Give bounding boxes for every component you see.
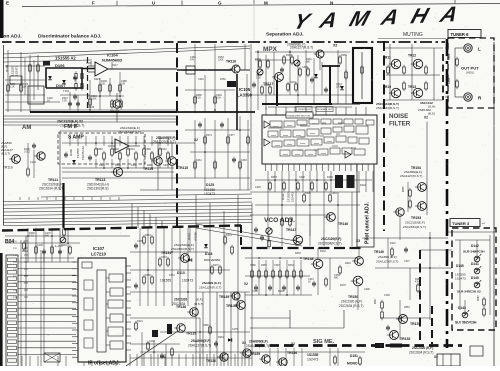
transistor TR119	[389, 88, 401, 97]
svg-text:R261: R261	[218, 336, 224, 339]
svg-text:D108: D108	[5, 64, 9, 72]
svg-text:R131: R131	[129, 148, 135, 151]
resistor R102	[20, 83, 23, 93]
IC MPX decoder outline	[262, 112, 377, 164]
transistor	[276, 358, 287, 366]
svg-text:D105: D105	[88, 105, 95, 109]
svg-text:TR152: TR152	[400, 337, 411, 341]
dashed border vertical muting left	[383, 41, 385, 231]
svg-text:TR110: TR110	[3, 166, 13, 170]
svg-text:D106: D106	[55, 63, 65, 68]
svg-text:47K: 47K	[190, 59, 195, 62]
svg-text:TR140: TR140	[226, 304, 237, 308]
resistor row lower	[251, 260, 303, 295]
transistor TR152 group	[387, 331, 411, 342]
wire thick y112 right	[177, 111, 255, 113]
svg-text:TR147: TR147	[286, 228, 296, 232]
label TUNER 3 box	[450, 219, 486, 227]
svg-text:25A1127(R,S,T): 25A1127(R,S,T)	[153, 140, 176, 144]
svg-text:680: 680	[306, 61, 311, 64]
svg-text:R399: R399	[115, 164, 121, 167]
transistor	[352, 257, 363, 266]
wires mid column x185-250	[185, 44, 250, 190]
dashed border vertical x177	[176, 43, 178, 226]
svg-text:(R,S,T): (R,S,T)	[194, 302, 203, 306]
svg-text:IL-ATM: IL-ATM	[55, 245, 62, 248]
svg-text:R133: R133	[286, 54, 292, 57]
svg-text:TR113: TR113	[95, 178, 105, 182]
label 2SA899 mid	[199, 281, 248, 290]
svg-text:R254: R254	[271, 176, 277, 179]
svg-text:Separation ADJ.: Separation ADJ.	[266, 32, 304, 38]
label L-CH MPX OUT	[295, 107, 312, 112]
svg-text:2SA1127(R,S,T): 2SA1127(R,S,T)	[246, 344, 269, 348]
transistor TR148 group	[303, 257, 323, 269]
svg-text:R381: R381	[255, 58, 261, 61]
wire diagonals to VCO	[196, 215, 330, 246]
svg-text:D116: D116	[205, 252, 213, 256]
svg-text:C254: C254	[331, 192, 337, 195]
transistor TR12	[411, 59, 423, 68]
svg-text:C136: C136	[86, 62, 92, 65]
transistor TR117 group	[263, 73, 283, 86]
svg-text:NJM4560D: NJM4560D	[102, 58, 122, 63]
svg-text:D111: D111	[281, 193, 285, 200]
svg-text:ion ADJ.: ion ADJ.	[2, 34, 22, 40]
transistor TR122 muting	[408, 85, 423, 98]
transistor TR115 group	[165, 157, 188, 170]
right page border	[493, 42, 495, 366]
wire thick y112	[30, 111, 177, 113]
trimmer separation	[257, 60, 300, 75]
transistor	[387, 331, 399, 340]
svg-text:10K: 10K	[121, 83, 126, 86]
transistor TR110	[3, 155, 20, 170]
svg-text:WZ090: WZ090	[194, 232, 198, 241]
svg-text:2SC2320(E,F): 2SC2320(E,F)	[405, 221, 425, 225]
IC MPX pins bottom	[266, 164, 374, 171]
resistor row FM IF	[95, 147, 170, 161]
svg-text:R246: R246	[345, 262, 351, 265]
wires IC to vco	[255, 192, 360, 246]
svg-text:R360: R360	[478, 295, 480, 301]
transistor TR114 group	[143, 157, 162, 171]
svg-text:R148: R148	[278, 290, 284, 293]
svg-text:SIG ME.: SIG ME.	[313, 339, 335, 345]
svg-text:LA3390: LA3390	[237, 93, 253, 98]
transistor TR134 group	[161, 243, 194, 262]
svg-text:1S2473: 1S2473	[182, 279, 193, 283]
svg-text:N: N	[330, 1, 333, 6]
svg-text:R174: R174	[206, 134, 212, 137]
svg-text:TR12: TR12	[408, 54, 416, 58]
svg-text:R142: R142	[360, 184, 366, 187]
dashed border horizontal y248	[241, 247, 362, 249]
resistor VCO pair	[254, 217, 291, 241]
dashed border discriminator section	[2, 41, 205, 43]
svg-text:C124: C124	[30, 161, 36, 164]
svg-text:R150: R150	[220, 78, 226, 81]
svg-text:3.3K: 3.3K	[216, 97, 221, 100]
svg-text:SLR-34MRC0H: SLR-34MRC0H	[463, 250, 485, 254]
svg-text:TR148: TR148	[303, 257, 314, 261]
svg-text:TR150: TR150	[348, 295, 358, 299]
svg-text:1S2473: 1S2473	[291, 192, 295, 202]
transistor TR153 group	[393, 208, 426, 229]
svg-text:D112: D112	[187, 233, 191, 240]
muting box top line	[378, 38, 446, 40]
svg-text:C390: C390	[145, 148, 151, 151]
transistor TR150 group	[339, 276, 363, 308]
svg-text:C291: C291	[198, 78, 204, 81]
resistor row MPX	[252, 51, 347, 96]
svg-text:R112: R112	[390, 242, 396, 245]
capacitor row lower	[250, 252, 314, 296]
transistor TR13	[411, 88, 423, 97]
svg-text:C393: C393	[241, 159, 247, 162]
small box right bottom	[470, 346, 483, 356]
svg-text:R363: R363	[145, 234, 151, 237]
svg-text:100K: 100K	[218, 59, 224, 62]
transistor TR111 group	[34, 152, 64, 191]
svg-text:MONO: MONO	[347, 362, 358, 366]
svg-text:3.3K: 3.3K	[256, 77, 261, 80]
resistor cluster discriminator	[68, 80, 127, 111]
svg-text:TR155: TR155	[250, 352, 260, 356]
svg-text:R121: R121	[137, 320, 143, 323]
svg-text:(R,S,T): (R,S,T)	[1, 152, 10, 156]
svg-text:10K: 10K	[23, 86, 28, 89]
wires around TR114 TR115	[140, 143, 250, 190]
svg-text:1S2473: 1S2473	[15, 66, 19, 76]
wires mid column	[130, 228, 250, 306]
diode labels D109	[69, 146, 85, 160]
resistor pair in D106 box	[48, 71, 83, 90]
label 2SA899 X2 separation	[287, 43, 337, 50]
svg-text:TR111: TR111	[48, 178, 58, 182]
svg-text:RD6.2ESB2: RD6.2ESB2	[204, 258, 221, 262]
svg-text:2SA899 (E,F): 2SA899 (E,F)	[202, 281, 221, 285]
svg-text:TR116: TR116	[226, 60, 236, 64]
wires lower network	[245, 248, 360, 310]
svg-text:2SD1302(R,S): 2SD1302(R,S)	[87, 187, 108, 191]
svg-text:X2: X2	[244, 282, 248, 286]
tuner3 dashed box	[452, 228, 496, 330]
svg-text:TR11: TR11	[383, 56, 391, 60]
svg-text:D142: D142	[471, 244, 479, 248]
svg-text:R316: R316	[226, 234, 232, 237]
resistor R103	[29, 63, 32, 73]
svg-text:IC107: IC107	[93, 246, 105, 251]
svg-text:2SC2320: 2SC2320	[174, 298, 188, 302]
transistor TR116 group	[177, 60, 250, 131]
led D140 group	[455, 273, 481, 288]
transistor TR111	[34, 152, 45, 160]
svg-text:R383: R383	[97, 148, 103, 151]
svg-text:0.022: 0.022	[24, 151, 31, 154]
transistor TR116	[230, 65, 241, 73]
label muting transistor values	[376, 101, 435, 120]
wires connector to IC107	[18, 262, 76, 354]
diode D108 label	[5, 64, 19, 76]
svg-text:IC105: IC105	[239, 87, 251, 92]
dark mark bottom mid	[152, 330, 158, 337]
svg-text:TR149: TR149	[374, 250, 384, 254]
svg-text:R355: R355	[341, 54, 347, 57]
left page edge bar top	[0, 0, 4, 38]
svg-text:2SC2634 (R,S,T): 2SC2634 (R,S,T)	[339, 304, 363, 308]
dashed border vertical x432 lower	[431, 306, 433, 344]
transistor	[415, 202, 426, 211]
svg-text:2SA1127(R,S,T): 2SA1127(R,S,T)	[199, 286, 221, 290]
svg-text:C377: C377	[229, 134, 235, 137]
transistor TR138 group	[176, 305, 198, 316]
svg-text:X2: X2	[333, 44, 337, 48]
svg-text:E: E	[6, 1, 9, 6]
svg-text:TR136: TR136	[206, 359, 216, 363]
svg-text:(B,S): (B,S)	[428, 112, 435, 116]
svg-text:C397: C397	[274, 264, 280, 267]
svg-text:TR134: TR134	[161, 251, 171, 255]
svg-text:TR151: TR151	[410, 322, 421, 326]
svg-text:S AMP: S AMP	[68, 135, 84, 141]
wire diagonal bottom-left	[126, 331, 178, 366]
wire bus vertical drops	[196, 195, 252, 366]
wires right mid	[362, 216, 452, 340]
transistor TR151 group	[396, 315, 421, 327]
wire stubs bottom edge	[22, 354, 252, 366]
dash-dot heavy vertical x447	[446, 39, 449, 348]
transistor	[396, 315, 408, 324]
transistor TR119 muting	[383, 85, 401, 98]
svg-text:2SC2634(R,S,T): 2SC2634(R,S,T)	[118, 130, 141, 134]
svg-text:D125: D125	[206, 183, 214, 187]
svg-text:F: F	[92, 1, 95, 6]
svg-text:R161: R161	[196, 159, 202, 162]
svg-text:MUTING: MUTING	[403, 32, 423, 38]
dashed border vertical x420	[419, 250, 421, 345]
wires muting frame	[384, 44, 443, 100]
label 2SC2320 mid	[172, 298, 203, 307]
svg-text:D109: D109	[69, 149, 73, 156]
svg-text:1K: 1K	[308, 281, 311, 284]
svg-text:U: U	[152, 1, 155, 6]
svg-text:G: G	[218, 1, 222, 6]
wires sigme	[250, 348, 365, 366]
svg-text:R235: R235	[403, 186, 405, 192]
edge connector left	[6, 255, 18, 366]
box small filter	[10, 76, 22, 84]
svg-text:C351: C351	[169, 274, 175, 277]
svg-text:D151: D151	[350, 354, 358, 358]
svg-text:TR153: TR153	[411, 216, 421, 220]
S AMP dashed box	[58, 133, 145, 164]
dark component near TR116	[227, 81, 236, 87]
svg-text:2SC2634 (R,S,T): 2SC2634 (R,S,T)	[39, 187, 64, 191]
label 2SA899 sigme	[246, 340, 295, 349]
svg-text:D145: D145	[456, 264, 464, 268]
svg-text:OUT PUT: OUT PUT	[461, 66, 479, 71]
label 2SC2320 X2 top	[57, 120, 84, 128]
svg-text:2SC2634(R,S,T): 2SC2634(R,S,T)	[318, 242, 342, 246]
transistor TR117	[272, 73, 283, 82]
svg-text:D140: D140	[471, 276, 479, 280]
transistor	[311, 259, 323, 269]
svg-text:2SA899(E,F): 2SA899(E,F)	[249, 340, 268, 344]
resistor cluster mid	[134, 234, 233, 293]
transistor TR135 group	[167, 324, 246, 348]
svg-text:680: 680	[45, 235, 50, 238]
label 2SC2320 X3	[318, 237, 360, 246]
svg-text:Pilot cancel ADJ.: Pilot cancel ADJ.	[365, 202, 371, 244]
label TUNER 6 box	[448, 30, 481, 38]
svg-text:R307: R307	[375, 298, 377, 304]
svg-text:C280: C280	[250, 264, 256, 267]
transistor TR118 upper group	[314, 50, 325, 70]
svg-text:X3: X3	[356, 239, 360, 243]
transistor TR146 group	[324, 213, 348, 226]
labels right lower	[312, 250, 370, 291]
pin rail labels	[13, 236, 28, 366]
diode D106 thick loop	[43, 61, 82, 88]
transistor	[234, 301, 245, 310]
transistor	[174, 324, 185, 333]
wire grid top-left	[5, 50, 177, 112]
wire sloping pair top-left	[3, 46, 250, 62]
svg-text:D141: D141	[471, 262, 479, 266]
svg-text:220: 220	[101, 83, 106, 86]
svg-text:C304: C304	[163, 164, 169, 167]
diode D111 labels	[281, 192, 295, 202]
svg-text:X2: X2	[434, 355, 438, 359]
svg-text:TUNER 6: TUNER 6	[451, 32, 470, 37]
transistor TR149 group	[352, 250, 398, 265]
transistor TR112 group	[110, 93, 121, 122]
top ruler line	[6, 0, 500, 40]
diode D113 group	[160, 271, 193, 283]
svg-text:1S2473 X2: 1S2473 X2	[81, 146, 85, 160]
svg-text:2SC2634(R,S,T): 2SC2634(R,S,T)	[403, 225, 426, 229]
wires below IC107	[84, 362, 116, 366]
svg-text:R601: R601	[447, 53, 451, 60]
IC MPX internal blocks	[264, 119, 374, 158]
svg-text:TR146: TR146	[338, 222, 348, 226]
transistor	[291, 235, 303, 244]
dashed border horizontal y229	[2, 226, 241, 231]
transistor TR155 group	[250, 352, 270, 363]
svg-text:1K: 1K	[47, 100, 50, 103]
svg-text:3.3K: 3.3K	[62, 100, 67, 103]
resistor col right	[375, 298, 390, 331]
transistor TR112	[110, 100, 121, 114]
svg-text:2SC2320 (E,F): 2SC2320 (E,F)	[412, 346, 433, 350]
svg-text:1S2473: 1S2473	[455, 277, 466, 281]
svg-text:(E,F): (E,F)	[196, 298, 202, 302]
label 2SC2320 block	[118, 126, 141, 134]
transistor TR140 group	[226, 301, 245, 310]
relay box bottom right	[437, 354, 460, 366]
diode D125 group	[204, 183, 215, 196]
svg-text:R132: R132	[320, 250, 326, 253]
tuner3 inner lines	[455, 235, 490, 315]
transistor	[240, 349, 251, 357]
svg-text:R334: R334	[288, 264, 294, 267]
svg-text:R193: R193	[327, 176, 333, 179]
svg-text:R164: R164	[161, 148, 167, 151]
transistor TR118	[389, 59, 401, 68]
wires FM IF verticals	[62, 136, 250, 178]
transistor TR154 group	[400, 122, 427, 215]
YAMAHA handwritten logo	[290, 1, 474, 34]
svg-text:0.01: 0.01	[29, 235, 34, 238]
svg-text:1S1555: 1S1555	[76, 148, 80, 158]
svg-text:TR19: TR19	[383, 85, 391, 89]
svg-text:2SA899 (E,F): 2SA899 (E,F)	[191, 339, 211, 343]
svg-text:2SA1127(R,S,T): 2SA1127(R,S,T)	[376, 260, 398, 264]
label 1S1555 sigme	[307, 353, 319, 362]
wire thick vertical x63	[62, 183, 64, 228]
parts mid column	[190, 56, 249, 170]
svg-text:NOISE: NOISE	[389, 113, 408, 120]
transistor	[324, 213, 335, 222]
transistor	[351, 276, 363, 286]
svg-text:TR13: TR13	[408, 85, 416, 89]
svg-text:TR138: TR138	[176, 305, 186, 309]
resistors muting	[387, 65, 428, 91]
svg-text:2SC2634 (R,S,T): 2SC2634 (R,S,T)	[409, 351, 433, 355]
wire grid MPX	[250, 50, 352, 110]
dashed border separation section	[205, 41, 445, 43]
connector L	[464, 44, 481, 52]
svg-text:EQUALIZER SECTION: EQUALIZER SECTION	[288, 114, 311, 117]
svg-text:X2: X2	[291, 342, 295, 346]
dashed border sig-me horizontal y345	[255, 344, 462, 347]
svg-text:1S1555: 1S1555	[160, 279, 171, 283]
svg-text:C136: C136	[252, 290, 258, 293]
svg-text:C228: C228	[299, 176, 305, 179]
transistor TR114	[151, 157, 162, 166]
svg-text:R131: R131	[290, 81, 296, 84]
wire long pair y118	[3, 116, 177, 125]
led D142 group	[463, 244, 485, 262]
transistor TR156 group	[276, 351, 297, 366]
svg-text:C206: C206	[264, 84, 270, 87]
svg-text:AM: AM	[22, 125, 31, 131]
svg-text:R604: R604	[447, 77, 451, 84]
svg-text:C337: C337	[404, 260, 410, 263]
svg-text:1S2473: 1S2473	[307, 358, 319, 362]
svg-text:C132: C132	[131, 164, 137, 167]
transistor TR113 group	[87, 167, 123, 190]
divider dashed x87	[87, 57, 89, 112]
transistor TR115	[165, 157, 176, 166]
svg-text:TR139: TR139	[219, 295, 229, 299]
svg-text:2SA899 (E,F): 2SA899 (E,F)	[378, 255, 397, 259]
svg-text:C215: C215	[99, 164, 105, 167]
svg-text:SLV 562VC3H: SLV 562VC3H	[455, 321, 477, 325]
svg-text:R224: R224	[94, 78, 100, 81]
svg-text:L-CH MPX OUT: L-CH MPX OUT	[296, 109, 312, 111]
label NOISE FILTER	[389, 113, 411, 128]
labels FM IF values	[64, 148, 169, 167]
svg-text:2SC3824(R,S,T): 2SC3824(R,S,T)	[376, 106, 399, 110]
pilot cancel ADJ box	[357, 164, 374, 247]
wires below IC	[250, 171, 373, 192]
led D143 group	[455, 306, 477, 325]
led D141 group	[456, 262, 481, 274]
svg-text:C225: C225	[255, 186, 261, 189]
wires midleft verticals	[5, 228, 130, 262]
